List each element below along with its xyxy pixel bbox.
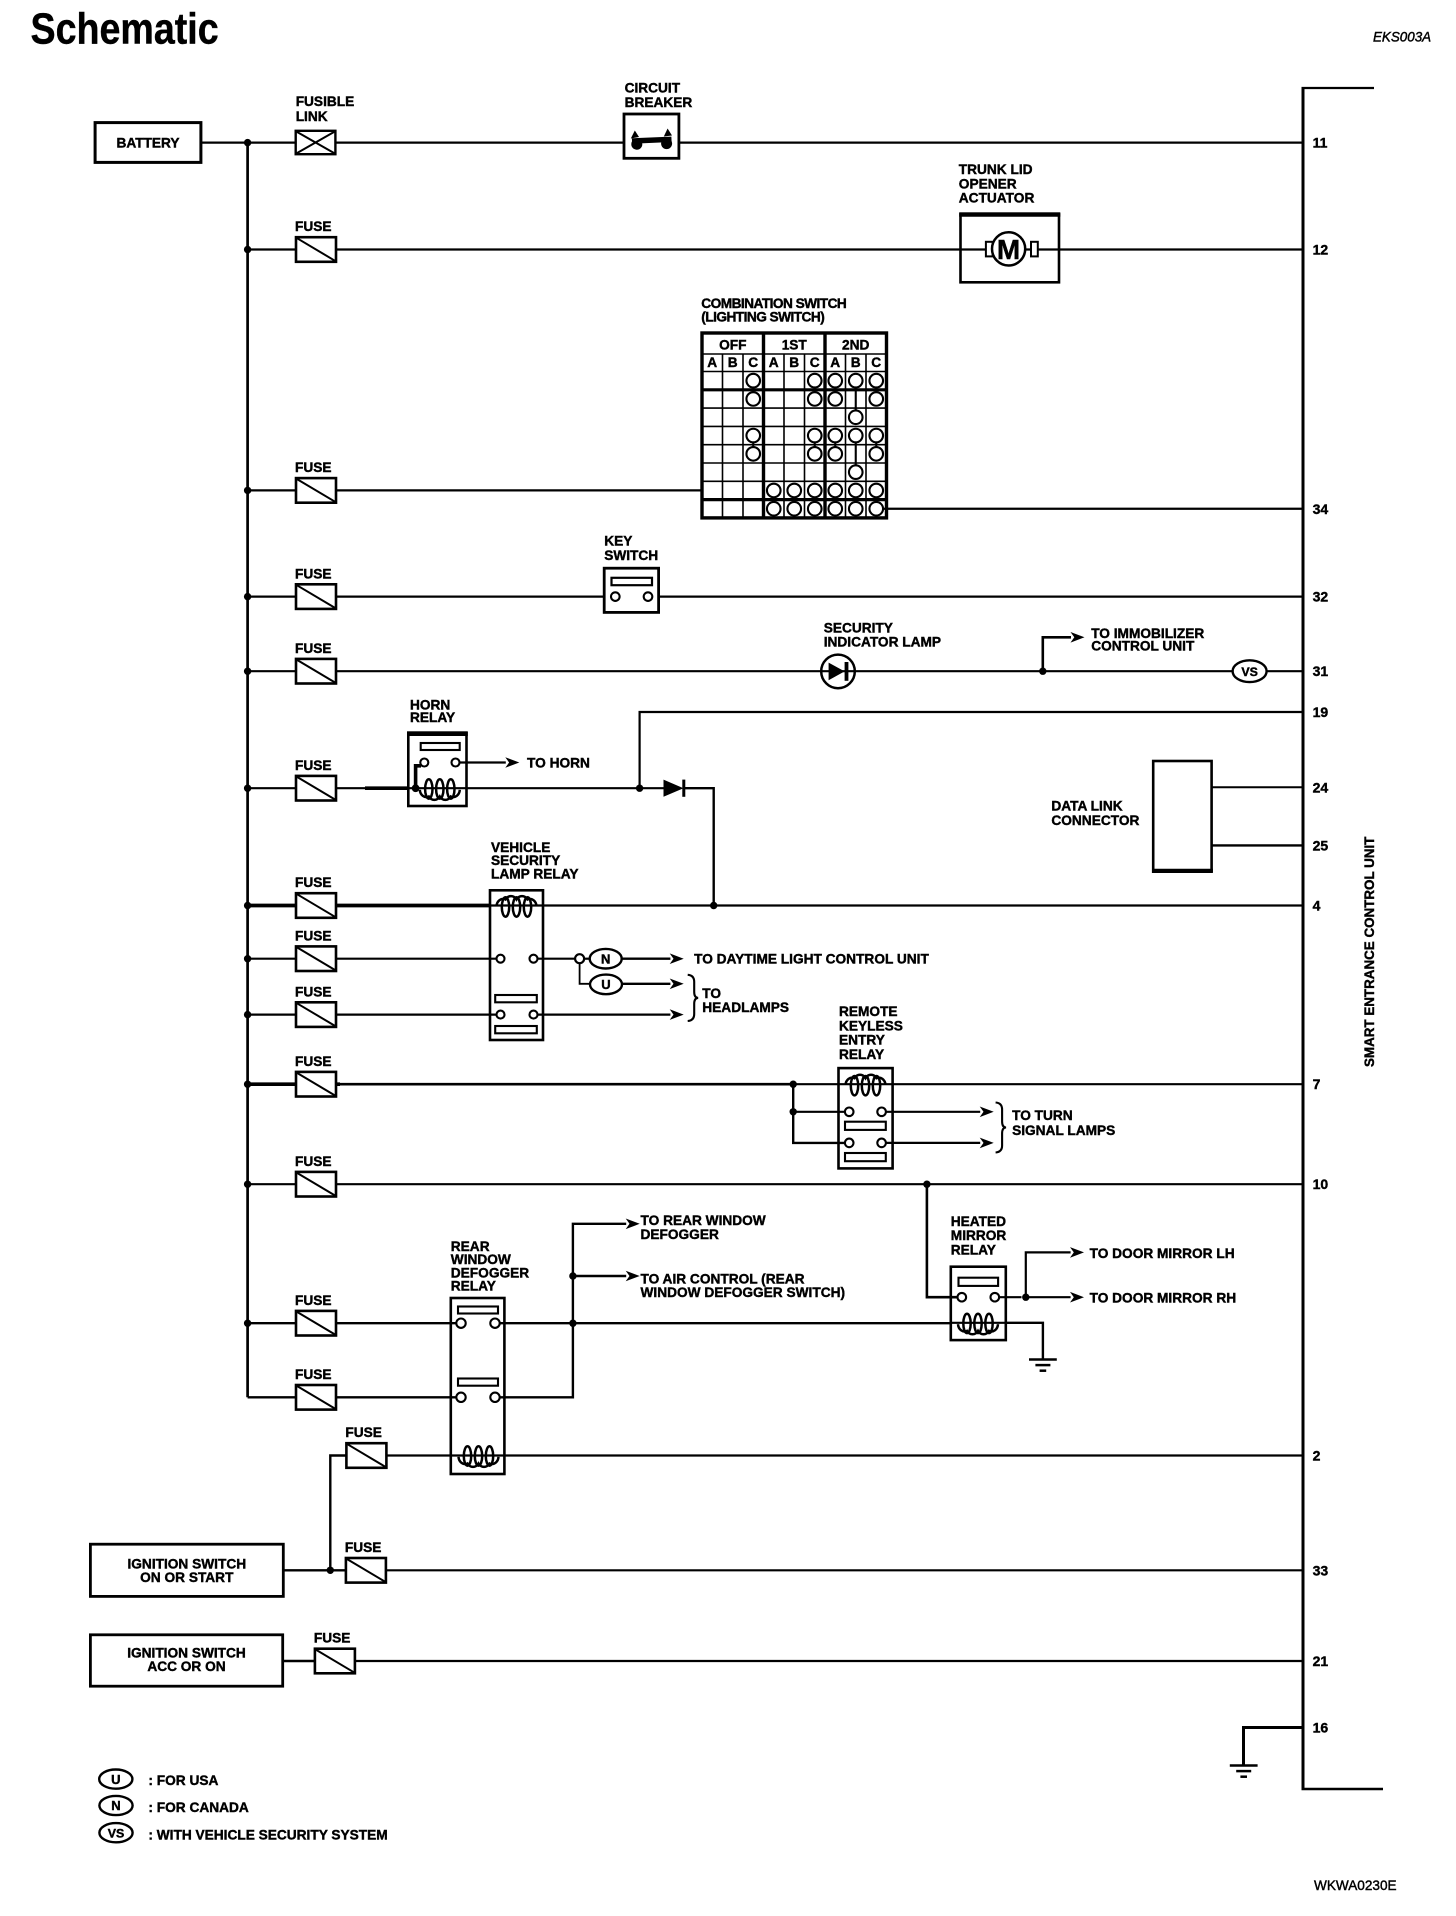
arrow to air control: [626, 1271, 640, 1282]
junction bus row 10: [244, 1181, 251, 1188]
wire defogger coil to pin 2: [504, 1454, 1303, 1456]
heated mirror coil wire: [951, 1322, 1006, 1324]
wire fuse to combination switch: [248, 489, 702, 491]
svg-text:16: 16: [1313, 1720, 1329, 1736]
arrow to rear window defogger: [626, 1219, 640, 1230]
svg-text:19: 19: [1313, 704, 1329, 720]
fuse horn row: [296, 776, 336, 801]
arrow to door mirror LH: [1070, 1247, 1084, 1258]
ignition switch acc or on: [90, 1635, 282, 1686]
svg-text:FUSE: FUSE: [295, 984, 332, 999]
svg-text:A: A: [707, 355, 717, 370]
wire keyless relay to pin 7: [893, 1083, 1303, 1085]
wire VSL lower contact to arrow: [538, 1013, 671, 1015]
security indicator lamp: [821, 655, 855, 689]
wire node to U symbol: [580, 963, 590, 984]
wire VSL contact to N branch node: [538, 958, 576, 960]
fuse row 12: [296, 237, 336, 262]
svg-text:FUSE: FUSE: [295, 219, 332, 234]
svg-text:: FOR USA: : FOR USA: [148, 1773, 218, 1788]
data link connector: [1152, 761, 1213, 872]
svg-text:2ND: 2ND: [842, 338, 869, 353]
wire to horn arrow: [460, 761, 506, 763]
wire bold into horn relay: [365, 786, 408, 790]
wire keyless contact feed: [793, 1084, 845, 1143]
wire key switch to pin 32: [652, 595, 1303, 597]
svg-text:N: N: [111, 1798, 120, 1813]
svg-text:TO DOOR MIRROR LH: TO DOOR MIRROR LH: [1090, 1246, 1235, 1261]
svg-text:TO DAYTIME LIGHT CONTROL UNIT: TO DAYTIME LIGHT CONTROL UNIT: [694, 952, 929, 967]
svg-text:FUSE: FUSE: [295, 758, 332, 773]
svg-text:11: 11: [1313, 135, 1328, 151]
wire U to arrow: [622, 983, 670, 985]
svg-text:EKS003A: EKS003A: [1373, 30, 1431, 45]
horn relay: [407, 733, 468, 806]
svg-text:OFF: OFF: [719, 338, 746, 353]
wire node to N symbol: [584, 958, 590, 960]
wire VS symbol to pin 31: [1267, 670, 1303, 672]
fuse defogger row 1: [296, 1311, 336, 1336]
combination switch header labels: [707, 338, 881, 371]
ignition switch on or start: [90, 1544, 283, 1596]
wire fuse row 12 left: [248, 248, 961, 250]
svg-text:B: B: [728, 355, 738, 370]
svg-text:1ST: 1ST: [782, 338, 808, 353]
keyless relay coil symbol: [846, 1075, 886, 1096]
wire fuse to pin 21: [355, 1660, 1303, 1662]
brace to turn signal lamps: [996, 1103, 1007, 1153]
arrow to immobilizer control unit: [1071, 632, 1085, 643]
brace to headlamps: [688, 975, 699, 1021]
wire to keyless upper contact: [793, 1111, 845, 1113]
junction defogger output: [569, 1320, 576, 1327]
junction bus defogger row: [244, 1320, 251, 1327]
keyless relay coil wire: [839, 1083, 893, 1085]
junction bus row 31: [244, 668, 251, 675]
svg-text:IGNITION SWITCHON OR START: IGNITION SWITCHON OR START: [127, 1556, 246, 1585]
svg-text:TO HORN: TO HORN: [527, 756, 590, 771]
wire heated mirror coil to ground: [1006, 1323, 1043, 1360]
svg-text:B: B: [851, 355, 861, 370]
vehicle security lamp relay: [490, 890, 543, 1040]
junction bus daytime row: [244, 955, 251, 962]
combination switch (lighting switch): [702, 333, 887, 518]
heated mirror relay coil symbol: [958, 1314, 998, 1335]
svg-text:HORNRELAY: HORNRELAY: [410, 698, 455, 726]
fuse defogger row 2: [296, 1385, 336, 1410]
arrow to horn: [505, 757, 519, 768]
wire pin 19: [640, 712, 1303, 788]
remote keyless entry relay: [839, 1068, 893, 1168]
wire VSL relay to pin 4: [543, 904, 1303, 906]
svg-text:M: M: [997, 234, 1020, 265]
svg-text:7: 7: [1313, 1076, 1321, 1092]
bold wire fuse to VSL relay coil: [248, 904, 490, 908]
VSL relay coil wire: [490, 904, 543, 906]
svg-text:FUSE: FUSE: [295, 928, 332, 943]
combination switch contact circles: [746, 374, 883, 516]
wire fuse through lamp to VS symbol: [248, 670, 1233, 672]
junction horn relay coil: [412, 784, 420, 792]
wire fuse to defogger contact: [248, 1322, 457, 1324]
branch node circle: [575, 954, 584, 963]
svg-text:C: C: [810, 355, 820, 370]
bold wire bus to fuse row 7: [248, 1082, 340, 1086]
arrow to door mirror RH: [1070, 1292, 1084, 1303]
wire defogger contact to heated mirror coil: [500, 1322, 951, 1324]
smart entrance control unit box: [1302, 88, 1384, 1789]
svg-text:SMART ENTRANCE CONTROL UNIT: SMART ENTRANCE CONTROL UNIT: [1362, 836, 1377, 1067]
wire fuse to defogger coil: [386, 1454, 451, 1456]
junction air control branch: [569, 1272, 576, 1279]
junction diode anode: [636, 785, 643, 792]
circuit breaker: [624, 114, 679, 158]
junction bus headlamp row: [244, 1011, 251, 1018]
VS option symbol: [1233, 660, 1267, 682]
wire diode to row 4 junction: [684, 788, 714, 905]
junction bus row 32: [244, 593, 251, 600]
wire fuse to key switch: [248, 595, 612, 597]
fuse daytime row: [296, 946, 336, 971]
fuse row 2: [346, 1443, 386, 1468]
trunk lid opener actuator: [959, 214, 1060, 283]
svg-text:TO DOOR MIRROR RH: TO DOOR MIRROR RH: [1090, 1291, 1237, 1306]
wire DLC to pin 24: [1212, 786, 1303, 788]
svg-text:A: A: [830, 355, 840, 370]
wire heated contact to junction: [999, 1296, 1021, 1298]
svg-text:33: 33: [1313, 1562, 1329, 1578]
svg-text:Schematic: Schematic: [31, 4, 219, 53]
svg-text:32: 32: [1313, 589, 1329, 605]
fuse row 7: [296, 1072, 336, 1097]
arrow lower to turn signal lamps: [980, 1138, 994, 1149]
svg-text:WKWA0230E: WKWA0230E: [1314, 1878, 1397, 1893]
wire to door mirror RH arrow: [1026, 1296, 1071, 1298]
svg-text:FUSE: FUSE: [295, 566, 332, 581]
legend U symbol: [99, 1770, 132, 1789]
svg-text:10: 10: [1313, 1176, 1329, 1192]
wire ignition acc to fuse: [283, 1660, 315, 1662]
svg-text:FUSE: FUSE: [295, 641, 332, 656]
svg-text:FUSE: FUSE: [345, 1540, 382, 1555]
battery: [95, 123, 201, 163]
wire defogger branch vertical: [500, 1224, 626, 1398]
svg-text:C: C: [871, 355, 881, 370]
junction bus horn row: [244, 785, 251, 792]
junction keyless upper contact feed: [790, 1108, 797, 1115]
wire battery to circuit breaker (row 11): [201, 142, 624, 144]
wire to diode: [640, 787, 664, 789]
wire fuse to pin 33: [386, 1569, 1303, 1571]
svg-text:4: 4: [1313, 898, 1321, 914]
arrow lower to headlamps: [670, 1009, 684, 1020]
rear window defogger relay: [451, 1298, 505, 1474]
fuse row 31: [296, 659, 336, 684]
svg-text:12: 12: [1313, 242, 1329, 258]
key switch: [604, 568, 658, 612]
junction keyless coil feed: [790, 1081, 797, 1088]
junction diode branch to row 4: [710, 902, 717, 909]
wire actuator to pin 12: [1059, 248, 1303, 250]
svg-text:34: 34: [1313, 501, 1329, 517]
wire fuse to VSL contact: [248, 958, 497, 960]
ground pin 16: [1230, 1766, 1258, 1777]
svg-text:2: 2: [1313, 1448, 1321, 1464]
fusible link: [296, 131, 336, 154]
wire keyless lower contact to arrow: [886, 1142, 980, 1144]
svg-text:N: N: [601, 951, 610, 966]
junction to immobilizer branch: [1039, 668, 1046, 675]
junction door mirror: [1022, 1294, 1029, 1301]
wire to immobilizer control unit: [1043, 637, 1071, 671]
svg-text:U: U: [111, 1772, 120, 1787]
junction bus row 12: [244, 246, 251, 253]
wire fuse to keyless relay: [336, 1083, 793, 1086]
svg-text:24: 24: [1313, 779, 1329, 795]
fuse row 21: [315, 1649, 355, 1674]
junction ignition feed: [327, 1567, 334, 1574]
svg-text:FUSE: FUSE: [295, 1367, 332, 1382]
svg-text:: FOR CANADA: : FOR CANADA: [148, 1800, 248, 1815]
wire pin 16 to ground: [1244, 1728, 1304, 1766]
arrow to daytime light control unit: [670, 953, 684, 964]
svg-text:VS: VS: [108, 1826, 125, 1840]
wire keyless upper contact to arrow: [886, 1111, 980, 1113]
fuse row 33: [346, 1558, 386, 1583]
svg-text:FUSE: FUSE: [314, 1631, 351, 1646]
diode: [664, 780, 684, 797]
wire fuse to VSL lower contact: [248, 1013, 497, 1015]
svg-text:25: 25: [1313, 837, 1329, 853]
svg-text:FUSE: FUSE: [295, 1293, 332, 1308]
wire DLC to pin 25: [1212, 844, 1303, 846]
legend VS symbol: [99, 1823, 132, 1842]
wire to air control arrow: [573, 1275, 626, 1277]
battery positive bus wire: [246, 143, 249, 1398]
svg-text:BATTERY: BATTERY: [116, 136, 179, 151]
ground heated mirror relay: [1029, 1360, 1057, 1371]
svg-text:FUSE: FUSE: [295, 1154, 332, 1169]
arrow U to headlamps: [670, 979, 684, 990]
svg-text:FUSE: FUSE: [345, 1425, 382, 1440]
svg-text:FUSE: FUSE: [295, 1054, 332, 1069]
wire to door mirror LH: [1026, 1252, 1071, 1297]
U option symbol (for USA): [590, 975, 622, 995]
fuse row 32: [296, 584, 336, 609]
svg-text:FUSE: FUSE: [295, 875, 332, 890]
wire bus corner to defogger row 2 fuse: [248, 1396, 457, 1398]
svg-text:U: U: [601, 977, 610, 992]
svg-text:VS: VS: [1241, 665, 1258, 679]
fuse row 4: [296, 893, 336, 918]
heated mirror relay: [951, 1267, 1006, 1340]
junction bus row 34: [244, 487, 251, 494]
wire ignition to fuse row 33: [283, 1569, 346, 1571]
fuse row 34: [296, 478, 336, 503]
wire to heated mirror relay contact: [927, 1184, 958, 1297]
svg-text:A: A: [769, 355, 779, 370]
wire combination switch to pin 34: [883, 508, 1303, 510]
junction row 10 to heated mirror relay: [923, 1181, 930, 1188]
defogger relay coil symbol: [459, 1446, 499, 1467]
junction bus row 7: [244, 1081, 251, 1088]
wire N to arrow: [622, 958, 671, 960]
junction battery/bus: [244, 139, 251, 146]
N option symbol (for Canada): [590, 949, 622, 969]
wire horn relay coil to diode: [467, 787, 640, 789]
defogger coil wire: [451, 1454, 505, 1456]
svg-text:: WITH VEHICLE SECURITY SYSTEM: : WITH VEHICLE SECURITY SYSTEM: [148, 1827, 387, 1842]
wire circuit breaker to pin 11: [679, 142, 1303, 144]
svg-text:21: 21: [1313, 1653, 1329, 1669]
svg-text:FUSE: FUSE: [295, 460, 332, 475]
svg-text:B: B: [789, 355, 799, 370]
svg-text:TO IMMOBILIZERCONTROL UNIT: TO IMMOBILIZERCONTROL UNIT: [1091, 626, 1204, 653]
horn relay coil: [420, 779, 460, 800]
wire fuse row 2 to ignition junction: [330, 1456, 346, 1571]
fuse headlamp row: [296, 1002, 336, 1027]
wire into keyless coil: [793, 1083, 838, 1085]
fuse row 10: [296, 1172, 336, 1197]
wire fuse to horn relay: [248, 787, 365, 789]
VSL relay coil symbol: [497, 896, 537, 917]
arrow upper to turn signal lamps: [980, 1107, 994, 1118]
svg-text:31: 31: [1313, 663, 1329, 679]
wire row 10 to pin 10: [248, 1183, 1303, 1185]
svg-text:C: C: [748, 355, 758, 370]
legend N symbol: [99, 1796, 132, 1815]
junction bus row 4: [244, 902, 251, 909]
